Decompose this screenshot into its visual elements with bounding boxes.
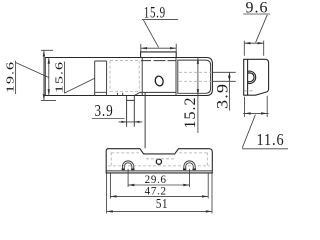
- dim 47.2 extension lines: [110, 174, 208, 199]
- svg-text:15.9: 15.9: [144, 4, 166, 21]
- dimple inner arc: [248, 73, 254, 82]
- right arch inner: [186, 163, 194, 169]
- tab underside line segments: [141, 60, 176, 62]
- dim 11.6 line: [243, 112, 268, 114]
- spring window box: [95, 61, 107, 96]
- arrowheads 19.6: [43, 50, 45, 56]
- dim 51 extension lines: [107, 174, 212, 214]
- dim 15.9 leader: [144, 20, 159, 47]
- dim 15.2 line: [197, 58, 199, 134]
- right view inner vertical: [247, 59, 249, 95]
- projection line: [144, 92, 146, 148]
- right view outline: [244, 59, 269, 95]
- arrowheads 15.9: [141, 47, 147, 49]
- blade line upper: [212, 71, 235, 73]
- arrowheads 3.9 right: [228, 72, 230, 77]
- dim 29.6 extension lines: [128, 169, 189, 187]
- arrows top view: [43, 47, 231, 123]
- hidden dashed lines bottom view: [108, 153, 210, 167]
- dim 3.9 left underline: [92, 118, 125, 120]
- dim 15.6 text underline: [64, 62, 66, 94]
- bottom flange: [127, 96, 135, 127]
- fold tick marks: [117, 93, 122, 96]
- rivet hole oval: [154, 75, 164, 86]
- arrowheads 51: [107, 210, 113, 212]
- svg-text:11.6: 11.6: [256, 131, 284, 149]
- svg-text:15.6: 15.6: [53, 61, 65, 93]
- dim 19.6 line: [41, 50, 56, 100]
- arrowheads 9.6: [244, 42, 250, 44]
- svg-text:51: 51: [156, 196, 168, 211]
- mid vertical left: [141, 58, 143, 96]
- dim 9.6 line: [244, 42, 263, 44]
- mid vertical right: [175, 58, 177, 96]
- right arch outer: [184, 161, 195, 170]
- dim 9.6 leader: [256, 15, 268, 43]
- dim 9.6 extension lines: [244, 41, 263, 56]
- left arch outer: [122, 161, 133, 170]
- dim 29.6 line: [128, 184, 189, 186]
- inner rounded rect right section: [178, 60, 211, 93]
- dim 11.6 text underline: [242, 148, 288, 150]
- left arch feet pads: [122, 168, 135, 170]
- inner base line: [134, 92, 176, 95]
- dim 19.6 leader: [16, 63, 49, 78]
- base line: [106, 170, 212, 172]
- dim 3.9 left line: [119, 121, 143, 123]
- dim 51 line: [107, 210, 212, 212]
- left arch inner: [124, 163, 132, 169]
- hidden dashed line right view: [245, 90, 255, 92]
- svg-text:3.9: 3.9: [95, 101, 114, 120]
- dim 15.9 extension lines: [141, 44, 176, 52]
- svg-text:19.6: 19.6: [4, 61, 16, 93]
- hidden blade lines inside housing: [179, 72, 212, 81]
- svg-text:15.2: 15.2: [182, 97, 199, 129]
- arrowheads 15.2: [197, 58, 199, 64]
- dim 11.6 leader: [242, 115, 255, 148]
- dim 19.6 text underline: [15, 61, 17, 95]
- dim 15.6 leader: [65, 78, 95, 93]
- part outline top view: [45, 58, 212, 96]
- dim 9.6 text underline: [243, 13, 270, 15]
- arrowheads 29.6: [128, 184, 134, 186]
- dimple outer arc: [248, 71, 256, 83]
- bottom view outline: [106, 149, 212, 173]
- dim 47.2 line: [110, 195, 208, 197]
- dim 3.9 right line: [228, 72, 230, 110]
- arrowheads 11.6: [245, 112, 251, 114]
- arrowheads 3.9 left: [121, 121, 126, 123]
- dims bottom view: [107, 169, 212, 214]
- right arch feet pads: [183, 168, 196, 170]
- hidden dashed window rect top view: [110, 61, 212, 92]
- blade line lower: [212, 80, 235, 82]
- arrowheads 15.6: [48, 58, 50, 64]
- center hole circle: [156, 159, 161, 164]
- top tab: [141, 52, 177, 58]
- dim 15.6 line: [48, 58, 50, 96]
- dim 11.6 extension lines: [245, 96, 268, 117]
- svg-text:9.6: 9.6: [246, 0, 269, 16]
- arrowheads 47.2: [110, 195, 116, 197]
- svg-text:3.9: 3.9: [214, 83, 231, 109]
- dim 15.9 text underline: [142, 18, 178, 20]
- dim 15.9 line: [141, 47, 176, 49]
